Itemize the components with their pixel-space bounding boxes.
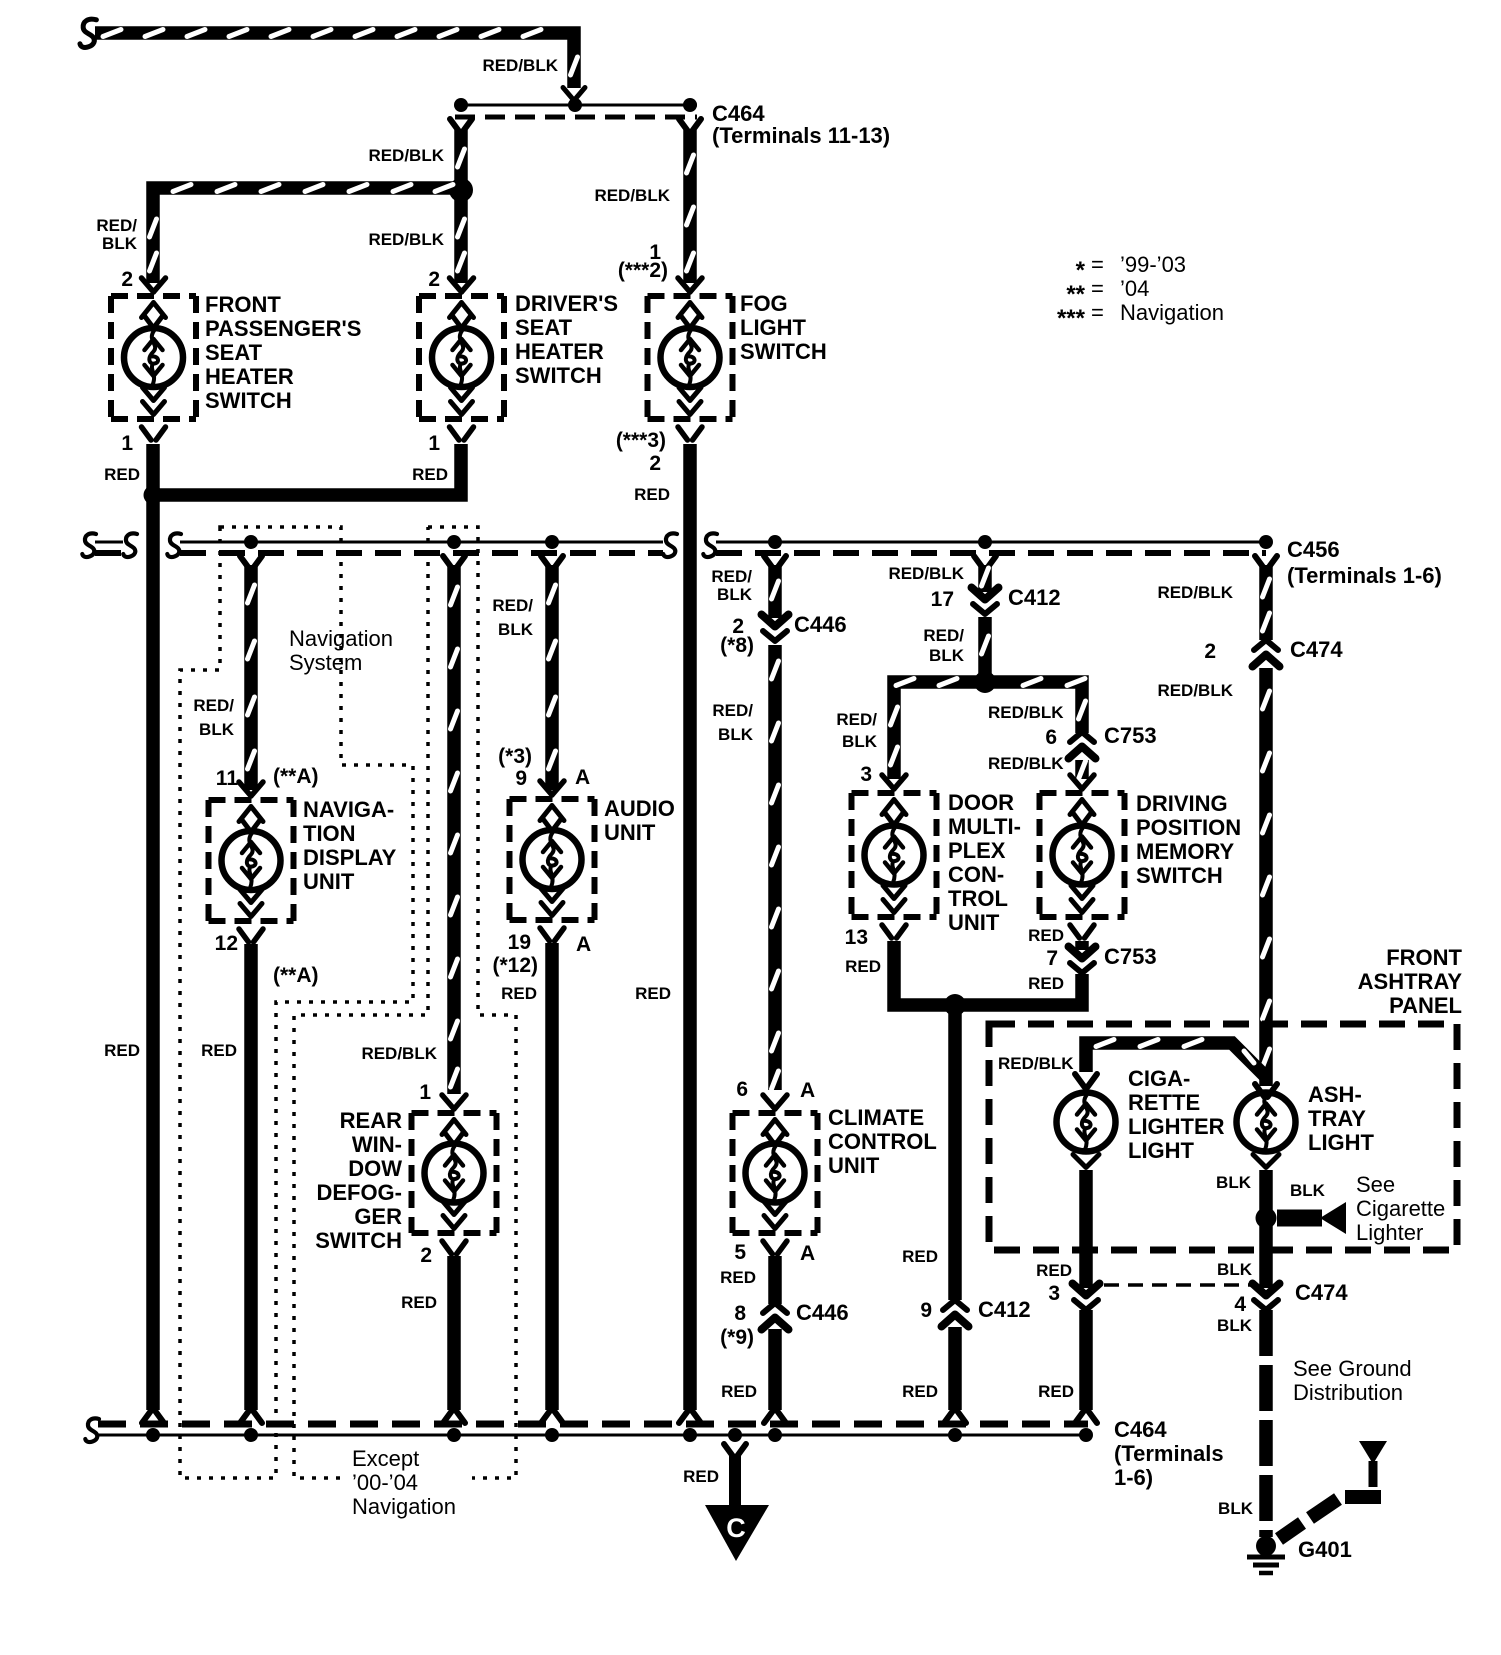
- svg-text:C753: C753: [1104, 723, 1157, 748]
- svg-text:BLK: BLK: [102, 234, 138, 253]
- svg-text:1-6): 1-6): [1114, 1465, 1153, 1490]
- svg-text:12: 12: [215, 932, 238, 955]
- svg-text:’99-’03: ’99-’03: [1120, 252, 1186, 277]
- svg-text:CONTROL: CONTROL: [828, 1129, 937, 1154]
- svg-text:LIGHT: LIGHT: [1128, 1138, 1195, 1163]
- svg-text:BLK: BLK: [842, 732, 878, 751]
- svg-text:GER: GER: [354, 1204, 402, 1229]
- svg-text:=: =: [1091, 252, 1104, 277]
- svg-text:Except: Except: [352, 1446, 419, 1471]
- svg-text:RED: RED: [902, 1247, 938, 1266]
- svg-text:(Terminals 1-6): (Terminals 1-6): [1287, 563, 1442, 588]
- svg-text:(***3): (***3): [616, 429, 666, 452]
- svg-text:RED/: RED/: [923, 626, 964, 645]
- svg-text:RED/BLK: RED/BLK: [361, 1044, 437, 1063]
- svg-text:BLK: BLK: [929, 646, 965, 665]
- svg-text:2: 2: [649, 452, 661, 475]
- svg-text:RED/BLK: RED/BLK: [998, 1054, 1074, 1073]
- svg-text:SWITCH: SWITCH: [740, 339, 827, 364]
- svg-text:3: 3: [860, 763, 872, 786]
- svg-text:A: A: [800, 1242, 815, 1265]
- svg-text:PANEL: PANEL: [1389, 993, 1462, 1018]
- svg-text:SEAT: SEAT: [205, 340, 263, 365]
- svg-text:LIGHT: LIGHT: [1308, 1130, 1375, 1155]
- svg-text:CIGA-: CIGA-: [1128, 1066, 1190, 1091]
- svg-text:RED: RED: [401, 1293, 437, 1312]
- svg-text:UNIT: UNIT: [303, 869, 355, 894]
- svg-text:MEMORY: MEMORY: [1136, 839, 1235, 864]
- svg-text:*: *: [1076, 257, 1086, 284]
- svg-text:RED: RED: [1036, 1261, 1072, 1280]
- svg-text:(*9): (*9): [720, 1326, 754, 1349]
- svg-text:C: C: [726, 1513, 746, 1543]
- svg-text:Navigation: Navigation: [289, 626, 393, 651]
- svg-text:Cigarette: Cigarette: [1356, 1196, 1445, 1221]
- svg-text:BLK: BLK: [717, 585, 753, 604]
- svg-text:RED/: RED/: [193, 696, 234, 715]
- svg-text:RED: RED: [720, 1268, 756, 1287]
- svg-text:RED: RED: [1028, 974, 1064, 993]
- svg-text:BLK: BLK: [1216, 1173, 1252, 1192]
- svg-text:ASH-: ASH-: [1308, 1082, 1362, 1107]
- svg-text:RED/: RED/: [711, 567, 752, 586]
- svg-text:RED: RED: [1028, 926, 1064, 945]
- svg-text:RED/BLK: RED/BLK: [888, 564, 964, 583]
- svg-text:RED: RED: [721, 1382, 757, 1401]
- svg-text:RED: RED: [104, 465, 140, 484]
- svg-text:NAVIGA-: NAVIGA-: [303, 797, 394, 822]
- svg-text:Navigation: Navigation: [1120, 300, 1224, 325]
- svg-text:SWITCH: SWITCH: [515, 363, 602, 388]
- svg-text:DISPLAY: DISPLAY: [303, 845, 397, 870]
- svg-text:RED: RED: [902, 1382, 938, 1401]
- svg-text:**: **: [1066, 281, 1085, 308]
- svg-text:RED/: RED/: [712, 701, 753, 720]
- svg-text:DRIVER'S: DRIVER'S: [515, 291, 618, 316]
- svg-text:HEATER: HEATER: [205, 364, 294, 389]
- svg-text:WIN-: WIN-: [352, 1132, 402, 1157]
- svg-text:(**A): (**A): [273, 765, 319, 788]
- svg-text:AUDIO: AUDIO: [604, 796, 675, 821]
- svg-text:SEAT: SEAT: [515, 315, 573, 340]
- svg-text:(Terminals: (Terminals: [1114, 1441, 1224, 1466]
- svg-text:C446: C446: [796, 1300, 849, 1325]
- svg-text:UNIT: UNIT: [828, 1153, 880, 1178]
- svg-text:2: 2: [420, 1244, 432, 1267]
- svg-text:’04: ’04: [1120, 276, 1149, 301]
- svg-text:SWITCH: SWITCH: [1136, 863, 1223, 888]
- svg-text:(***2): (***2): [618, 259, 668, 282]
- svg-text:BLK: BLK: [1217, 1316, 1253, 1335]
- svg-text:DRIVING: DRIVING: [1136, 791, 1228, 816]
- svg-text:RETTE: RETTE: [1128, 1090, 1200, 1115]
- svg-text:C446: C446: [794, 612, 847, 637]
- svg-text:=: =: [1091, 300, 1104, 325]
- svg-text:1: 1: [121, 432, 133, 455]
- svg-text:C753: C753: [1104, 944, 1157, 969]
- svg-text:FRONT: FRONT: [205, 292, 281, 317]
- svg-text:3: 3: [1048, 1282, 1060, 1305]
- svg-text:See Ground: See Ground: [1293, 1356, 1412, 1381]
- svg-text:RED/BLK: RED/BLK: [594, 186, 670, 205]
- svg-text:TROL: TROL: [948, 886, 1008, 911]
- svg-text:C412: C412: [1008, 585, 1061, 610]
- svg-text:RED/: RED/: [492, 596, 533, 615]
- svg-text:LIGHT: LIGHT: [740, 315, 807, 340]
- svg-text:Navigation: Navigation: [352, 1494, 456, 1519]
- svg-text:17: 17: [931, 588, 954, 611]
- svg-text:BLK: BLK: [718, 725, 754, 744]
- svg-text:9: 9: [515, 767, 527, 790]
- svg-text:RED: RED: [412, 465, 448, 484]
- svg-text:REAR: REAR: [340, 1108, 402, 1133]
- svg-text:13: 13: [845, 926, 868, 949]
- svg-text:1: 1: [419, 1081, 431, 1104]
- svg-text:A: A: [576, 933, 591, 956]
- svg-text:2: 2: [428, 268, 440, 291]
- svg-text:(**A): (**A): [273, 964, 319, 987]
- svg-text:11: 11: [216, 767, 239, 790]
- svg-text:RED/BLK: RED/BLK: [368, 230, 444, 249]
- svg-text:C412: C412: [978, 1297, 1031, 1322]
- svg-text:G401: G401: [1298, 1537, 1352, 1562]
- svg-text:RED/BLK: RED/BLK: [368, 146, 444, 165]
- svg-text:(Terminals 11-13): (Terminals 11-13): [712, 123, 890, 148]
- svg-text:POSITION: POSITION: [1136, 815, 1241, 840]
- svg-text:SWITCH: SWITCH: [315, 1228, 402, 1253]
- svg-text:SWITCH: SWITCH: [205, 388, 292, 413]
- svg-text:A: A: [800, 1079, 815, 1102]
- svg-text:PLEX: PLEX: [948, 838, 1006, 863]
- svg-text:RED: RED: [845, 957, 881, 976]
- svg-text:RED: RED: [635, 984, 671, 1003]
- svg-text:UNIT: UNIT: [604, 820, 656, 845]
- svg-text:RED: RED: [683, 1467, 719, 1486]
- svg-text:A: A: [575, 766, 590, 789]
- svg-text:7: 7: [1046, 947, 1058, 970]
- svg-text:RED: RED: [1038, 1382, 1074, 1401]
- svg-text:CON-: CON-: [948, 862, 1004, 887]
- svg-text:PASSENGER'S: PASSENGER'S: [205, 316, 361, 341]
- svg-text:4: 4: [1234, 1293, 1246, 1316]
- svg-text:BLK: BLK: [498, 620, 534, 639]
- svg-text:C464: C464: [1114, 1417, 1167, 1442]
- svg-text:RED/: RED/: [96, 216, 137, 235]
- svg-text:CLIMATE: CLIMATE: [828, 1105, 924, 1130]
- svg-text:RED/BLK: RED/BLK: [988, 754, 1064, 773]
- svg-text:BLK: BLK: [1218, 1499, 1254, 1518]
- svg-text:RED/BLK: RED/BLK: [1157, 583, 1233, 602]
- svg-text:C474: C474: [1295, 1280, 1348, 1305]
- svg-text:MULTI-: MULTI-: [948, 814, 1021, 839]
- svg-text:TRAY: TRAY: [1308, 1106, 1366, 1131]
- svg-text:BLK: BLK: [1217, 1260, 1253, 1279]
- svg-text:RED/BLK: RED/BLK: [988, 703, 1064, 722]
- svg-text:1: 1: [428, 432, 440, 455]
- svg-text:6: 6: [736, 1078, 748, 1101]
- svg-text:TION: TION: [303, 821, 356, 846]
- svg-text:9: 9: [920, 1299, 932, 1322]
- svg-text:8: 8: [734, 1302, 746, 1325]
- svg-text:=: =: [1091, 276, 1104, 301]
- svg-text:RED/: RED/: [836, 710, 877, 729]
- svg-text:FOG: FOG: [740, 291, 788, 316]
- svg-text:5: 5: [734, 1241, 746, 1264]
- svg-text:HEATER: HEATER: [515, 339, 604, 364]
- svg-text:(*3): (*3): [498, 745, 532, 768]
- svg-text:Lighter: Lighter: [1356, 1220, 1423, 1245]
- svg-text:RED: RED: [501, 984, 537, 1003]
- svg-text:(*12): (*12): [492, 954, 538, 977]
- svg-text:6: 6: [1045, 726, 1057, 749]
- svg-text:RED: RED: [634, 485, 670, 504]
- svg-text:BLK: BLK: [1290, 1181, 1326, 1200]
- svg-text:DEFOG-: DEFOG-: [316, 1180, 402, 1205]
- svg-text:2: 2: [121, 268, 133, 291]
- svg-text:RED/BLK: RED/BLK: [1157, 681, 1233, 700]
- svg-text:See: See: [1356, 1172, 1395, 1197]
- svg-text:(*8): (*8): [720, 634, 754, 657]
- svg-text:ASHTRAY: ASHTRAY: [1358, 969, 1463, 994]
- svg-text:19: 19: [508, 931, 531, 954]
- svg-text:C456: C456: [1287, 537, 1340, 562]
- svg-text:RED: RED: [201, 1041, 237, 1060]
- svg-text:LIGHTER: LIGHTER: [1128, 1114, 1225, 1139]
- svg-text:System: System: [289, 650, 362, 675]
- svg-text:FRONT: FRONT: [1386, 945, 1462, 970]
- svg-text:RED/BLK: RED/BLK: [482, 56, 558, 75]
- svg-text:UNIT: UNIT: [948, 910, 1000, 935]
- svg-text:DOOR: DOOR: [948, 790, 1014, 815]
- svg-text:***: ***: [1057, 305, 1086, 332]
- svg-text:DOW: DOW: [348, 1156, 402, 1181]
- svg-text:2: 2: [1204, 640, 1216, 663]
- svg-text:BLK: BLK: [199, 720, 235, 739]
- svg-text:’00-’04: ’00-’04: [352, 1470, 418, 1495]
- svg-text:C474: C474: [1290, 637, 1343, 662]
- svg-text:Distribution: Distribution: [1293, 1380, 1403, 1405]
- svg-text:RED: RED: [104, 1041, 140, 1060]
